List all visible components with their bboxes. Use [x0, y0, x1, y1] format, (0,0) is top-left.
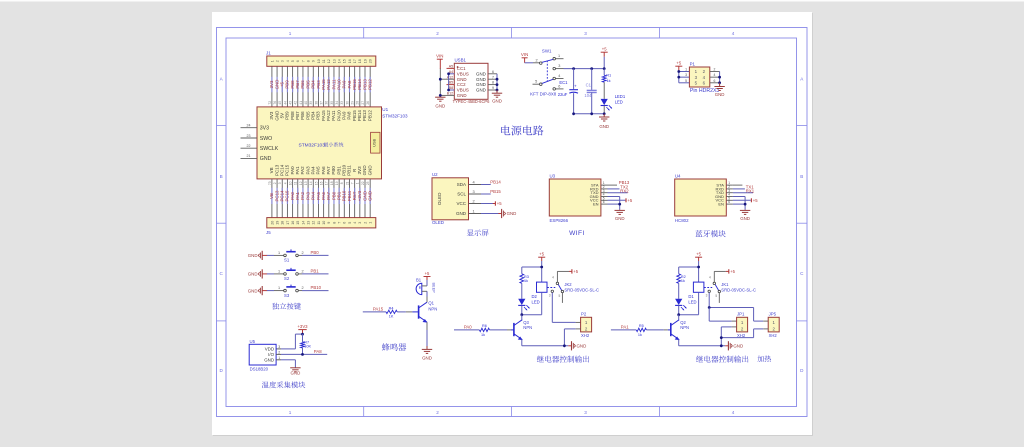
label 加热 — [757, 355, 771, 361]
svg-text:16: 16 — [348, 59, 352, 63]
U1 left programming pins — [241, 124, 279, 163]
svg-text:3: 3 — [358, 222, 362, 224]
svg-text:16: 16 — [320, 181, 324, 185]
svg-text:12: 12 — [312, 221, 316, 225]
relay JK1 contacts SRD-05VDC-SL-C — [704, 275, 756, 303]
node RX2 — [620, 188, 629, 193]
capacitor EC1 22uF — [558, 69, 578, 114]
svg-text:S1: S1 — [284, 258, 290, 263]
node GND (S3) — [248, 286, 267, 295]
svg-text:2: 2 — [301, 251, 303, 255]
svg-text:GND: GND — [248, 288, 258, 293]
wire OLED pins — [469, 179, 501, 213]
svg-text:28: 28 — [356, 101, 360, 105]
svg-text:23: 23 — [247, 134, 251, 138]
relay JK2 contacts SRD-05VDC-SL-C — [547, 275, 599, 303]
svg-text:4: 4 — [709, 275, 711, 279]
wire JP1 pin2 to GND — [720, 327, 737, 346]
svg-text:JP1: JP1 — [737, 312, 745, 317]
svg-text:3: 3 — [278, 182, 282, 184]
svg-text:RX1: RX1 — [746, 188, 755, 193]
label 显示屏 — [467, 229, 489, 236]
wire Q3 emitter rail — [522, 340, 569, 348]
ground (DS18B20) — [290, 368, 300, 376]
LED D2 — [518, 283, 539, 314]
svg-text:18: 18 — [358, 59, 362, 63]
svg-text:10: 10 — [288, 181, 292, 185]
wire relay common to +5 — [557, 271, 569, 282]
svg-text:17: 17 — [353, 59, 357, 63]
node PB13 — [619, 180, 630, 185]
node VIN (switch) — [521, 52, 528, 63]
svg-text:U4: U4 — [675, 174, 681, 179]
pin header J1 — [266, 51, 376, 67]
node GND (relay1) — [568, 341, 586, 350]
node PB15 — [490, 189, 501, 194]
svg-text:NPN: NPN — [428, 306, 437, 311]
LED1 — [601, 82, 626, 114]
svg-text:SDA: SDA — [457, 182, 466, 187]
ground (USB left) — [435, 97, 445, 108]
svg-text:8: 8 — [307, 60, 311, 62]
svg-text:1k: 1k — [524, 279, 528, 283]
resistor R1 1k — [602, 69, 611, 83]
svg-text:BEEP: BEEP — [431, 283, 435, 294]
svg-text:VIN: VIN — [521, 52, 528, 57]
svg-text:2: 2 — [278, 350, 280, 354]
wire relay common to +5 — [714, 271, 726, 282]
wire to JP5 pin1 — [754, 308, 769, 322]
push button S1 — [284, 249, 299, 262]
node +5 (relay contact) — [569, 269, 579, 274]
svg-text:2: 2 — [275, 60, 279, 62]
svg-text:1: 1 — [558, 54, 560, 58]
svg-text:USB: USB — [373, 138, 377, 146]
svg-text:+5: +5 — [676, 61, 681, 66]
svg-text:DS18B20: DS18B20 — [250, 366, 269, 371]
svg-text:2: 2 — [436, 31, 439, 36]
svg-text:10: 10 — [322, 221, 326, 225]
svg-text:43: 43 — [288, 101, 292, 105]
label 蓝牙模块 — [695, 230, 725, 237]
wire +5 to P1 — [677, 68, 689, 83]
svg-text:72: 72 — [268, 101, 272, 105]
svg-text:20: 20 — [270, 221, 274, 225]
svg-text:73: 73 — [268, 181, 272, 185]
svg-text:1K: 1K — [389, 315, 394, 319]
svg-text:35: 35 — [330, 101, 334, 105]
svg-text:13: 13 — [304, 181, 308, 185]
svg-text:2: 2 — [273, 182, 277, 184]
svg-text:+: + — [574, 83, 577, 88]
transistor Q2 NPN — [671, 320, 689, 340]
node GND (S2) — [248, 269, 267, 278]
svg-text:12: 12 — [299, 181, 303, 185]
svg-text:NPN: NPN — [680, 325, 689, 330]
svg-text:1: 1 — [356, 182, 360, 184]
svg-text:4: 4 — [286, 60, 290, 62]
svg-text:LED: LED — [688, 299, 696, 304]
node +5 (U4) — [751, 198, 758, 203]
label 蜂鸣器 — [382, 343, 406, 351]
svg-text:GND: GND — [476, 88, 486, 93]
svg-text:WIFI: WIFI — [569, 230, 585, 237]
svg-text:SRD-05VDC-SL-C: SRD-05VDC-SL-C — [564, 287, 599, 292]
svg-text:4: 4 — [714, 73, 716, 77]
wire JP5 pin2 to GND — [721, 329, 768, 338]
svg-text:10K: 10K — [304, 345, 311, 349]
display module U2 OLED — [432, 172, 469, 225]
wire to JP1 pin1 — [709, 308, 736, 322]
svg-text:PA1: PA1 — [621, 324, 629, 329]
svg-text:U3: U3 — [550, 174, 556, 179]
svg-text:3: 3 — [584, 31, 587, 36]
transistor Q1 NPN — [419, 301, 438, 323]
pin header P1 HDR2X3 — [689, 61, 719, 93]
svg-text:3V3: 3V3 — [260, 126, 269, 132]
svg-text:2: 2 — [473, 198, 475, 203]
svg-text:+5: +5 — [497, 201, 502, 206]
transistor Q3 NPN — [514, 320, 532, 340]
svg-text:GND: GND — [492, 99, 502, 104]
wire S1 to PB0 — [298, 251, 328, 256]
svg-text:4: 4 — [732, 31, 735, 36]
svg-text:16: 16 — [291, 221, 295, 225]
svg-text:GND: GND — [367, 191, 372, 201]
svg-text:XH2: XH2 — [581, 333, 590, 338]
svg-text:7: 7 — [338, 222, 342, 224]
svg-text:5: 5 — [559, 294, 561, 298]
svg-text:1: 1 — [289, 410, 292, 415]
svg-text:+3V3: +3V3 — [297, 324, 308, 329]
svg-text:3: 3 — [685, 73, 687, 77]
svg-text:A12: A12 — [447, 75, 453, 79]
svg-text:PB12: PB12 — [367, 110, 372, 122]
push button S3 — [284, 285, 299, 298]
net labels J1 bus — [268, 79, 373, 105]
svg-text:2: 2 — [363, 222, 367, 224]
ground (U3) — [615, 210, 625, 221]
svg-text:20: 20 — [369, 59, 373, 63]
wire P1 to GND — [710, 68, 721, 87]
power +5 (regulator rail) — [601, 47, 608, 57]
svg-text:+5: +5 — [753, 198, 758, 203]
node GND (S1) — [248, 251, 267, 260]
relay JK2 coil — [520, 282, 547, 316]
svg-text:8: 8 — [332, 222, 336, 224]
svg-text:4: 4 — [353, 222, 357, 224]
svg-text:GND: GND — [367, 165, 372, 176]
power +5 (P1) — [675, 61, 682, 72]
svg-text:1: 1 — [289, 31, 292, 36]
svg-text:GND: GND — [599, 124, 609, 129]
net labels J5 bus — [268, 181, 373, 201]
relay JK1 coil — [677, 282, 704, 316]
svg-text:SWO: SWO — [260, 136, 272, 142]
resistor R6 1k — [479, 324, 489, 337]
svg-text:OLED: OLED — [432, 220, 444, 225]
wire GND to S2 — [267, 269, 284, 274]
svg-text:VIN: VIN — [436, 54, 443, 59]
LED D1 — [675, 283, 696, 314]
svg-text:19: 19 — [363, 59, 367, 63]
svg-text:1: 1 — [369, 222, 373, 224]
svg-text:GND: GND — [260, 156, 272, 162]
svg-text:+5: +5 — [602, 47, 607, 52]
svg-text:VBUS: VBUS — [457, 71, 469, 76]
svg-text:6: 6 — [492, 70, 494, 74]
resistor R4 1K — [386, 307, 397, 319]
schematic sheet — [212, 12, 813, 436]
svg-text:3: 3 — [558, 64, 560, 68]
svg-text:+5: +5 — [573, 269, 578, 274]
svg-text:Q1: Q1 — [428, 301, 434, 306]
svg-text:76: 76 — [273, 101, 277, 105]
wire 3V3 to VDD — [276, 333, 304, 349]
svg-text:R5: R5 — [639, 324, 644, 328]
wire USB right GND pins — [488, 70, 498, 93]
svg-text:OLED: OLED — [437, 192, 442, 205]
node TX2 — [620, 184, 628, 189]
svg-text:3: 3 — [549, 294, 551, 298]
capacitor C1 104 — [584, 69, 596, 114]
label WIFI — [569, 230, 585, 237]
svg-text:I/O: I/O — [268, 352, 274, 357]
wires U3 pins — [601, 181, 628, 210]
node PA15 — [373, 306, 384, 311]
svg-text:PB12: PB12 — [367, 79, 372, 90]
svg-text:19: 19 — [335, 181, 339, 185]
node +5 (OLED) — [493, 201, 502, 206]
svg-text:PB1: PB1 — [311, 268, 320, 273]
wire Q2 emitter rail — [679, 340, 726, 348]
svg-text:27: 27 — [361, 101, 365, 105]
svg-text:4: 4 — [558, 74, 560, 78]
label 继电器控制输出 (1) — [537, 356, 589, 363]
connector JP5 XH2 — [768, 312, 779, 338]
svg-text:2: 2 — [535, 58, 537, 62]
node +5 (U3) — [626, 198, 633, 203]
svg-text:GND: GND — [715, 92, 725, 97]
svg-text:26: 26 — [366, 101, 370, 105]
wire Q1 emitter to GND — [426, 322, 428, 349]
svg-text:14: 14 — [309, 181, 313, 185]
node GND (relay2) — [725, 341, 743, 350]
wire R5 to Q2 — [646, 329, 670, 331]
svg-text:C1: C1 — [586, 82, 592, 87]
wire GND to S1 — [267, 251, 284, 256]
svg-text:GND: GND — [248, 272, 258, 277]
svg-text:4: 4 — [283, 182, 287, 184]
svg-text:R4: R4 — [389, 307, 394, 311]
svg-text:34: 34 — [335, 101, 339, 105]
resistor R2 1k — [677, 267, 686, 283]
svg-text:22: 22 — [361, 181, 365, 185]
svg-text:+5: +5 — [696, 252, 701, 257]
svg-text:7: 7 — [351, 182, 355, 184]
label 继电器控制输出 (2) — [696, 356, 748, 363]
node PB14 — [490, 180, 501, 185]
svg-text:9: 9 — [312, 60, 316, 62]
svg-text:104: 104 — [584, 93, 592, 98]
svg-text:GND: GND — [476, 82, 486, 87]
svg-text:1k: 1k — [681, 279, 685, 283]
sheet border frame — [217, 28, 808, 417]
buzzer B1 — [416, 278, 435, 295]
wire S3 to PB10 — [298, 286, 328, 291]
power +5 (relay coil) — [695, 252, 702, 261]
svg-text:GND: GND — [507, 211, 517, 216]
svg-text:SRD-05VDC-SL-C: SRD-05VDC-SL-C — [721, 287, 756, 292]
svg-text:7: 7 — [492, 75, 494, 79]
svg-text:VDD: VDD — [265, 347, 274, 352]
ground (USB right) — [492, 93, 502, 103]
svg-text:GND: GND — [456, 211, 467, 216]
svg-text:1: 1 — [278, 356, 280, 360]
wire VIN / GND left of USB — [439, 59, 454, 97]
svg-text:R1: R1 — [606, 73, 611, 78]
svg-text:S2: S2 — [284, 276, 290, 281]
svg-text:CC1: CC1 — [457, 66, 466, 71]
connector P2 XH2 — [581, 312, 592, 338]
switch SW1 KFT DIP-8X8 — [530, 49, 563, 97]
svg-text:18: 18 — [281, 221, 285, 225]
wire R4 to Q1 — [397, 311, 418, 313]
svg-text:4: 4 — [552, 275, 554, 279]
svg-text:3: 3 — [281, 60, 285, 62]
svg-text:1k: 1k — [481, 333, 485, 337]
wire GND rail (power) — [572, 112, 605, 117]
node TX1 — [746, 184, 754, 189]
svg-text:J5: J5 — [266, 230, 271, 235]
svg-text:B: B — [800, 174, 803, 179]
svg-text:5: 5 — [348, 222, 352, 224]
svg-text:3: 3 — [706, 294, 708, 298]
svg-text:4: 4 — [732, 410, 735, 415]
wire +5 branch — [522, 261, 543, 282]
svg-text:1k: 1k — [607, 78, 611, 83]
ground (buzzer) — [422, 349, 432, 360]
svg-text:GND: GND — [422, 356, 432, 361]
svg-text:10: 10 — [317, 59, 321, 63]
wire P2 pin2 to GND — [564, 329, 580, 346]
svg-text:6: 6 — [714, 79, 716, 83]
wire +5 branch — [679, 261, 700, 282]
svg-text:GND: GND — [476, 77, 486, 82]
svg-text:3: 3 — [473, 189, 475, 194]
wire +5 rail — [564, 57, 606, 70]
svg-text:PB15: PB15 — [490, 189, 501, 194]
svg-text:USB1: USB1 — [455, 58, 467, 63]
wire +5 to buzzer — [426, 280, 428, 286]
svg-text:38: 38 — [314, 101, 318, 105]
svg-text:B12: B12 — [447, 92, 453, 96]
svg-text:SWCLK: SWCLK — [260, 146, 279, 152]
svg-text:5: 5 — [535, 79, 537, 83]
svg-text:U2: U2 — [432, 172, 438, 177]
svg-text:15: 15 — [343, 59, 347, 63]
svg-text:GND: GND — [476, 71, 486, 76]
temperature sensor U5 DS18B20 — [249, 339, 280, 371]
svg-text:EC1: EC1 — [559, 80, 568, 85]
resistor R3 1k — [520, 267, 529, 283]
node PB10 — [311, 285, 322, 290]
label 温度采集模块 — [262, 381, 305, 388]
svg-text:42: 42 — [294, 101, 298, 105]
wire GND to S3 — [267, 286, 284, 291]
node VIN (USB) — [436, 54, 443, 60]
svg-text:1k: 1k — [638, 333, 642, 337]
node +5 (relay contact) — [726, 269, 736, 274]
svg-text:1: 1 — [278, 269, 280, 273]
svg-text:R3: R3 — [524, 275, 529, 279]
svg-text:19: 19 — [275, 221, 279, 225]
power +3V3 (DS18B20) — [297, 324, 308, 334]
node PA8 — [314, 349, 322, 354]
svg-text:11: 11 — [317, 221, 321, 225]
U3 module — [549, 174, 601, 223]
svg-text:1: 1 — [278, 251, 280, 255]
svg-text:36: 36 — [325, 101, 329, 105]
svg-text:11: 11 — [322, 59, 326, 63]
svg-text:1: 1 — [278, 286, 280, 290]
svg-text:5: 5 — [291, 60, 295, 62]
svg-text:LED: LED — [532, 299, 540, 304]
pin header J5 — [266, 218, 376, 235]
svg-text:+5: +5 — [730, 269, 735, 274]
svg-text:5: 5 — [715, 294, 717, 298]
wire relay2 throw junction — [708, 293, 754, 309]
svg-text:HC802: HC802 — [675, 218, 689, 223]
svg-text:PA0: PA0 — [464, 324, 472, 329]
svg-text:15: 15 — [296, 221, 300, 225]
wire J1 to U1 bus — [272, 66, 370, 107]
svg-text:ESP8266: ESP8266 — [550, 218, 569, 223]
node RX1 — [746, 188, 755, 193]
svg-text:GND: GND — [248, 253, 258, 258]
svg-text:17: 17 — [286, 221, 290, 225]
svg-text:2: 2 — [301, 286, 303, 290]
resistor R7 10K — [301, 334, 312, 354]
svg-text:TYPEC-45BD-6CP6: TYPEC-45BD-6CP6 — [453, 99, 491, 104]
node PA0 — [464, 324, 472, 329]
wire R6 to Q3 — [490, 329, 514, 331]
resistor R5 1k — [636, 324, 646, 337]
wire PA0 to R6 — [454, 329, 479, 331]
svg-text:J1: J1 — [266, 51, 271, 56]
svg-text:7: 7 — [301, 60, 305, 62]
U4 module — [675, 174, 727, 223]
svg-text:STM32F103: STM32F103 — [382, 114, 408, 119]
svg-text:GND: GND — [740, 216, 750, 221]
svg-text:S3: S3 — [284, 293, 290, 298]
svg-text:8: 8 — [340, 182, 344, 184]
svg-text:2: 2 — [436, 410, 439, 415]
svg-text:SW1: SW1 — [542, 49, 552, 54]
label 独立按键 — [272, 303, 301, 310]
connector JP1 XH2 — [737, 312, 748, 338]
svg-text:23: 23 — [366, 181, 370, 185]
wire VIN to SW1 — [525, 62, 540, 64]
push button S2 — [284, 268, 299, 281]
svg-text:6: 6 — [296, 60, 300, 62]
svg-text:P1: P1 — [690, 61, 696, 66]
svg-text:9: 9 — [327, 222, 331, 224]
svg-text:+5: +5 — [425, 271, 430, 276]
svg-text:P2: P2 — [581, 312, 587, 317]
wire U1 to J5 bus — [272, 179, 370, 218]
node PB1 — [311, 268, 320, 273]
